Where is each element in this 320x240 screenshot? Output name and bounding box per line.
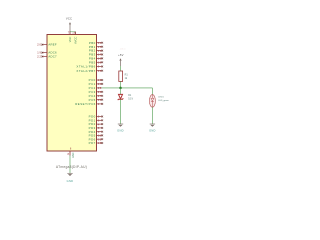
wire IC GND pin to ground <box>69 156 71 174</box>
pin PB3 (17) <box>89 53 103 57</box>
svg-text:RESET/PC6: RESET/PC6 <box>75 102 96 106</box>
svg-text:PD7: PD7 <box>89 141 96 145</box>
pin PB5 (19) <box>89 60 103 64</box>
power symbol VCC <box>66 16 72 31</box>
pin PC0 (23) <box>89 78 103 82</box>
pin ADC6 (19) <box>37 51 57 55</box>
ground under IC <box>67 173 74 183</box>
svg-text:GND: GND <box>67 179 74 183</box>
pin ADC7 (22) <box>37 55 57 59</box>
svg-text:+5V_1: +5V_1 <box>119 49 126 51</box>
svg-text:+5V: +5V <box>118 53 123 57</box>
svg-text:1k: 1k <box>125 77 128 80</box>
pin PD1 (3) <box>89 118 103 122</box>
pin RESET/PC6 (1) <box>75 102 103 106</box>
svg-text:20: 20 <box>37 43 41 47</box>
wire PC2 to LED <box>102 87 153 89</box>
pin AREF (20) <box>37 43 57 47</box>
ground under D1 <box>117 124 124 133</box>
pin VCC (7) top <box>68 31 72 43</box>
pin PC2 (25) <box>89 86 102 90</box>
pin PD4 (6) <box>89 130 103 134</box>
pin XTAL2/PB7 (10) <box>76 69 103 73</box>
wire LED to GND <box>151 107 153 124</box>
svg-text:VCC: VCC <box>66 16 72 20</box>
svg-text:13: 13 <box>98 141 102 145</box>
pin PB4 (18) <box>89 57 103 61</box>
svg-text:GND: GND <box>149 129 156 133</box>
wire +5V to R1 <box>120 66 122 71</box>
wire node A to D1 <box>120 88 122 95</box>
svg-text:10: 10 <box>98 69 102 73</box>
junction node A <box>119 87 122 90</box>
svg-text:1: 1 <box>98 102 100 106</box>
pin PD6 (12) <box>89 137 103 141</box>
pin PC5 (28) <box>89 98 103 102</box>
IC U1 ATmega8 body <box>47 35 97 152</box>
pin PB0 (14) <box>89 41 103 45</box>
svg-text:8: 8 <box>68 152 70 156</box>
svg-text:XTAL2/PB7: XTAL2/PB7 <box>76 69 95 73</box>
pin PC1 (24) <box>89 82 103 86</box>
pin PD2 (4) <box>89 122 103 126</box>
net name +5V (faint) <box>119 49 126 51</box>
pin AVCC (18) top <box>72 31 77 44</box>
pin GND (8) bottom <box>68 148 76 158</box>
pin PC3 (26) <box>89 90 103 94</box>
svg-text:AVCC: AVCC <box>73 37 77 44</box>
svg-text:22: 22 <box>37 55 41 59</box>
svg-text:GND: GND <box>117 129 124 133</box>
zener diode D1 5.1V <box>118 94 134 100</box>
pin XTAL1/PB6 (9) <box>76 65 103 69</box>
pin PC4 (27) <box>89 94 103 98</box>
svg-text:AREF: AREF <box>48 43 57 47</box>
power symbol +5V <box>118 53 123 66</box>
pin PD7 (13) <box>89 141 103 145</box>
value label ATmega8(DIP-AU) <box>56 165 87 169</box>
svg-text:ATmega8(DIP-AU): ATmega8(DIP-AU) <box>56 165 87 169</box>
svg-text:VCC: VCC <box>68 37 72 43</box>
wire D1 to GND <box>120 99 122 124</box>
svg-text:7: 7 <box>68 31 70 35</box>
svg-text:5.1V: 5.1V <box>128 98 133 101</box>
LED LED1 green <box>149 95 169 108</box>
svg-text:GND: GND <box>72 152 75 158</box>
pin PB1 (15) <box>89 45 103 49</box>
pin PD5 (11) <box>89 134 103 138</box>
svg-text:ADC7: ADC7 <box>48 55 57 59</box>
pin PD3 (5) <box>89 126 103 130</box>
wire VCC to AVCC pin <box>70 31 76 33</box>
pin PD0 (2) <box>89 115 103 119</box>
resistor R1 1k <box>119 71 129 81</box>
wire R1 to node A <box>120 81 122 88</box>
wire LED top <box>151 88 153 95</box>
ground under LED1 <box>149 124 156 133</box>
svg-text:LED_green: LED_green <box>158 99 169 102</box>
svg-text:LED1: LED1 <box>158 96 164 98</box>
pin PB2 (16) <box>89 49 103 53</box>
